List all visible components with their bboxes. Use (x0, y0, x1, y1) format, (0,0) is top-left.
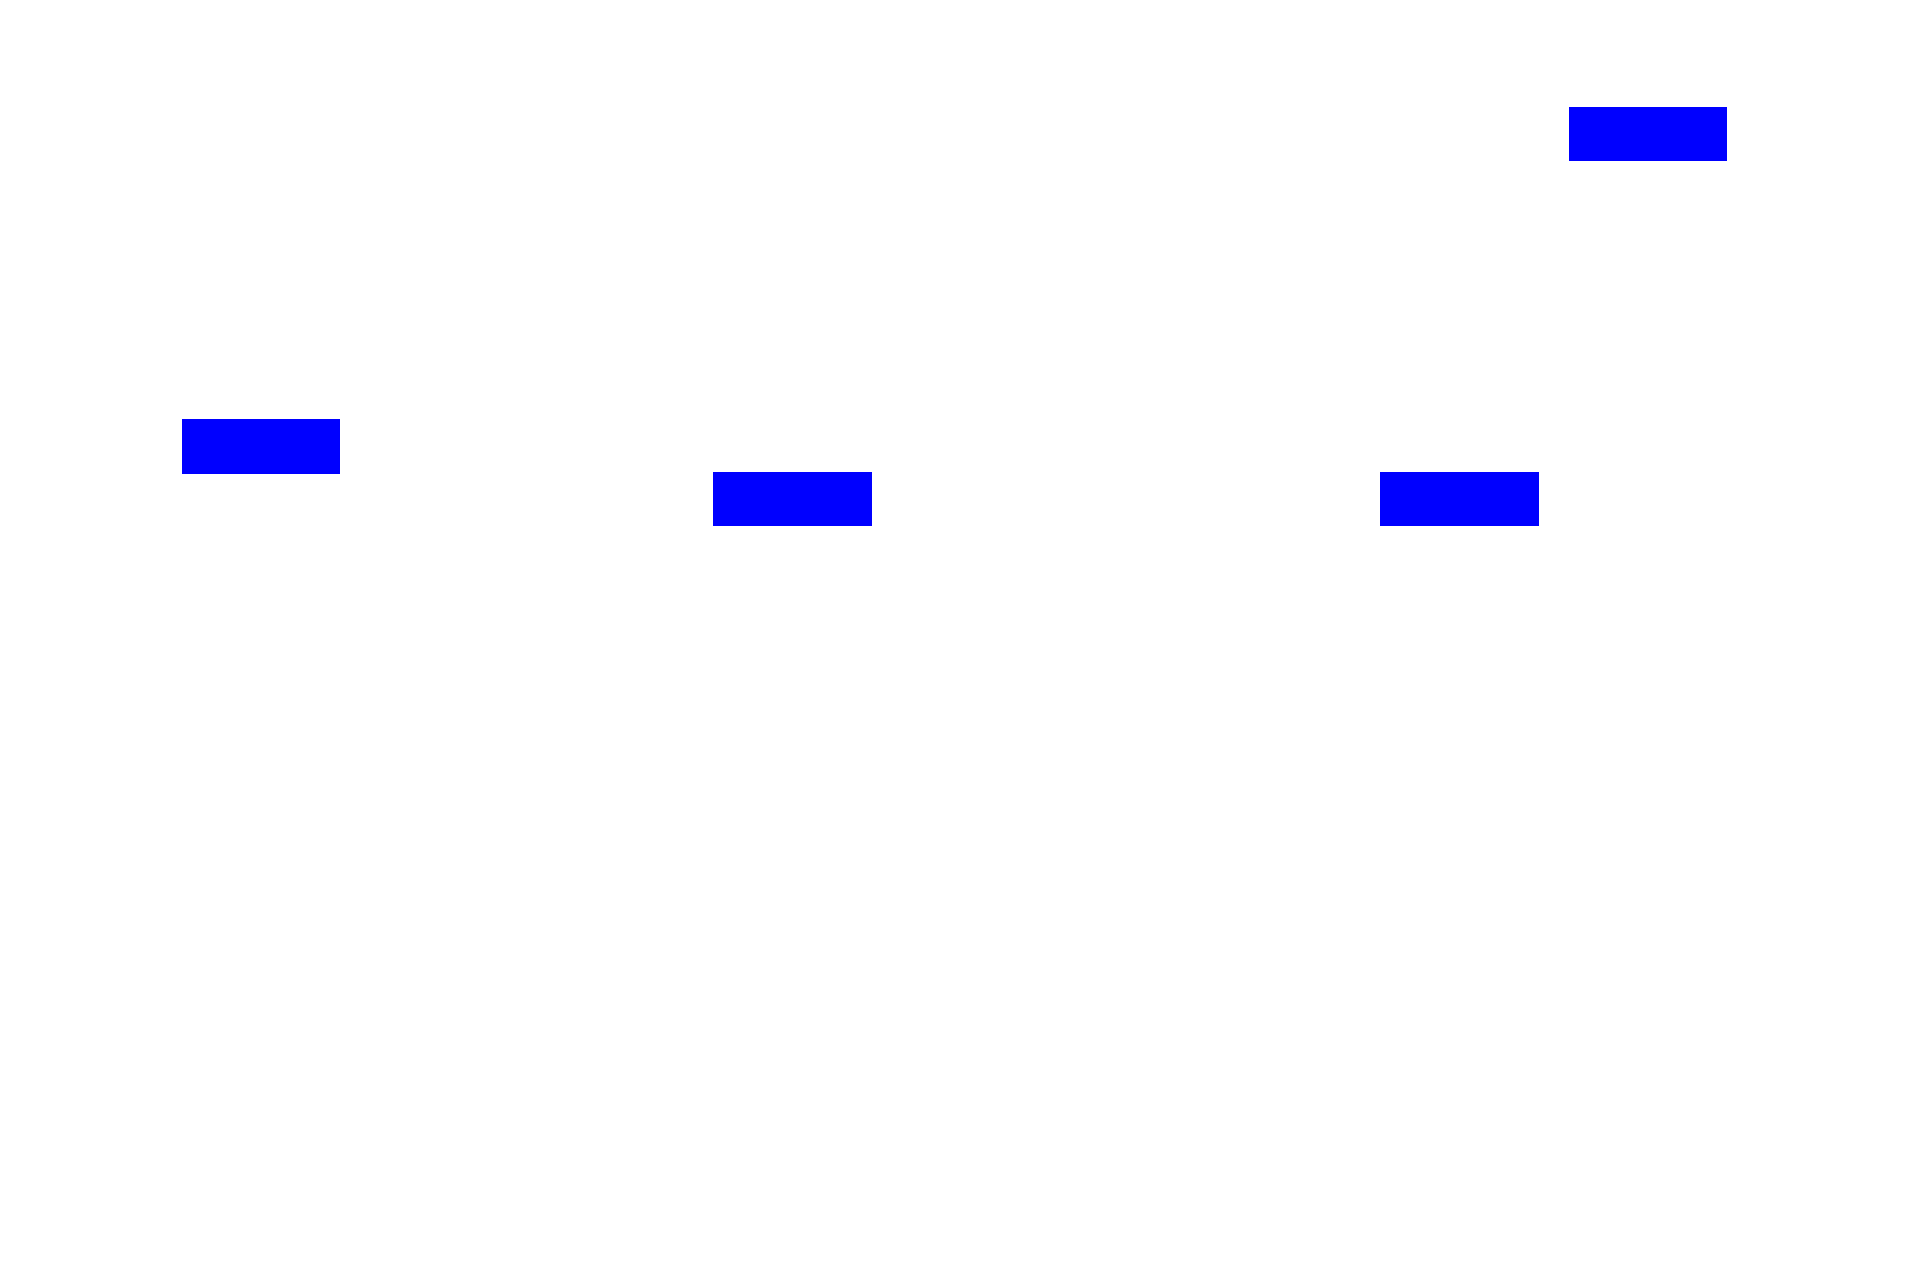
blue rectangle left (182, 419, 340, 474)
blue rectangle right (1380, 472, 1539, 526)
blue rectangle center (713, 472, 872, 526)
blue rectangle top-right (1569, 107, 1727, 161)
